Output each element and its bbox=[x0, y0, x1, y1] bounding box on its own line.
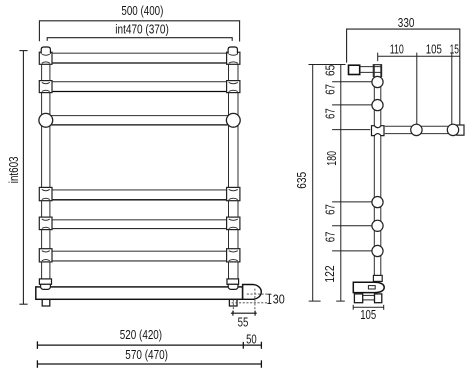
horizontal tube 3 bbox=[50, 116, 229, 125]
horizontal tube 2 bbox=[50, 82, 229, 92]
left rail collar at tube 6 bbox=[39, 249, 52, 262]
side view sleeve above heater bbox=[373, 275, 382, 281]
side view top dimension line 110/105/15 bbox=[378, 53, 460, 125]
bottom collector bar bbox=[36, 287, 243, 299]
dimension 520 line with 50 segment bbox=[37, 341, 261, 349]
side view rail top sleeve bbox=[373, 65, 381, 77]
side view tube end circle 5 bbox=[372, 245, 383, 256]
side view tube end circle 1 bbox=[372, 76, 383, 87]
horizontal tube 4 bbox=[50, 190, 229, 200]
svg-text:30: 30 bbox=[273, 291, 285, 306]
left rail collar at tube 4 bbox=[39, 187, 52, 200]
svg-text:67: 67 bbox=[323, 204, 338, 215]
heater bracket left pad bbox=[354, 294, 362, 303]
side view wall arm middle bbox=[385, 126, 458, 133]
hidden axis dashed lines at heating element bbox=[232, 289, 270, 314]
svg-text:105: 105 bbox=[426, 42, 442, 57]
left rail top cap bbox=[41, 47, 50, 54]
horizontal tube 6 bbox=[50, 251, 229, 261]
front view right rail tube bbox=[229, 53, 239, 280]
side view rail tube bbox=[374, 65, 381, 282]
side view heater block bbox=[353, 282, 384, 292]
right rail collar at tube 5 bbox=[227, 217, 240, 230]
dimension 570 line bbox=[37, 360, 261, 368]
horizontal tube 1 bbox=[50, 53, 229, 63]
left foot bbox=[42, 299, 50, 306]
right rail bottom elbow bbox=[227, 279, 239, 290]
dimension 105 bottom line bbox=[353, 305, 384, 310]
right rail collar at tube 4 bbox=[227, 187, 240, 200]
side view top arm bbox=[360, 67, 382, 73]
svg-text:65: 65 bbox=[322, 65, 337, 76]
dimension int470 bracket bbox=[47, 38, 232, 41]
heater bracket connector bbox=[363, 295, 375, 300]
side view junction spool bbox=[372, 126, 385, 136]
svg-text:122: 122 bbox=[322, 265, 337, 282]
dimension 30 bracket bbox=[267, 294, 271, 303]
left big ball joint at tube 3 bbox=[39, 113, 53, 127]
svg-text:int470 (370): int470 (370) bbox=[115, 21, 169, 36]
right rail collar at tube 1 bbox=[227, 52, 240, 64]
side view wall flange bbox=[457, 125, 464, 135]
side view 635 dimension line bbox=[309, 65, 321, 302]
dimension 55 line bbox=[231, 311, 257, 316]
right foot bbox=[229, 299, 237, 306]
svg-text:55: 55 bbox=[238, 314, 249, 329]
side view spacing ladder line bbox=[309, 65, 373, 302]
svg-text:570 (470): 570 (470) bbox=[125, 347, 168, 362]
left rail collar at tube 5 bbox=[39, 217, 52, 230]
dimension 500 bracket bbox=[39, 21, 239, 42]
svg-text:330: 330 bbox=[398, 15, 415, 30]
right rail collar at tube 6 bbox=[227, 249, 240, 262]
side view arm circle 2 bbox=[447, 124, 458, 135]
heater switch detail bbox=[368, 286, 375, 289]
svg-text:67: 67 bbox=[323, 232, 338, 243]
svg-text:520 (420): 520 (420) bbox=[120, 327, 162, 342]
side view tube end circle 3 bbox=[372, 197, 383, 208]
left rail collar at tube 2 bbox=[39, 81, 52, 93]
left rail collar at tube 1 bbox=[39, 52, 52, 64]
side view arm circle 1 bbox=[411, 124, 422, 135]
dimension int603 vertical line bbox=[19, 51, 27, 305]
right rail top cap bbox=[228, 47, 237, 54]
left rail bottom elbow bbox=[39, 279, 51, 290]
svg-text:67: 67 bbox=[322, 84, 337, 95]
heater bracket right pad bbox=[375, 294, 382, 303]
svg-text:500 (400): 500 (400) bbox=[121, 3, 163, 18]
svg-text:int603: int603 bbox=[6, 157, 21, 184]
svg-text:635: 635 bbox=[294, 172, 309, 189]
side view 330 bracket bbox=[347, 29, 460, 125]
side view wall pad bbox=[349, 65, 360, 74]
svg-text:180: 180 bbox=[324, 151, 339, 166]
svg-text:110: 110 bbox=[390, 42, 404, 57]
svg-text:67: 67 bbox=[322, 108, 337, 119]
horizontal tube 5 bbox=[50, 220, 229, 229]
svg-text:50: 50 bbox=[246, 332, 257, 347]
side view tube end circle 2 bbox=[372, 100, 383, 111]
right rail collar at tube 2 bbox=[227, 81, 240, 93]
right big ball joint at tube 3 bbox=[226, 113, 240, 127]
front view left rail tube bbox=[42, 53, 50, 280]
heating element end cap bbox=[243, 285, 262, 300]
svg-text:15: 15 bbox=[450, 42, 459, 57]
side view tube end circle 4 bbox=[372, 220, 383, 231]
svg-text:105: 105 bbox=[360, 307, 376, 322]
